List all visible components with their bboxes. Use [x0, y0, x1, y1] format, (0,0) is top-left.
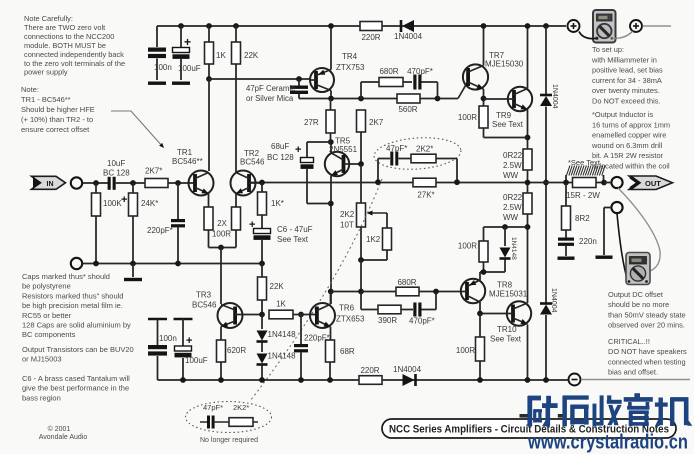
pointer line from note to TR1 — [111, 111, 163, 147]
svg-text:220pF*: 220pF* — [147, 226, 173, 235]
transistor TR6 ZTX653 — [310, 303, 335, 328]
capacitor 470pF upper — [413, 75, 416, 90]
svg-text:over twenty minutes.: over twenty minutes. — [592, 86, 660, 95]
svg-text:C6 - A brass cased Tantalum wi: C6 - A brass cased Tantalum will — [22, 374, 130, 383]
svg-text:*Output Inductor is: *Output Inductor is — [592, 110, 654, 119]
svg-text:+: + — [186, 335, 192, 347]
svg-text:BC546**: BC546** — [172, 157, 203, 166]
svg-text:TR8: TR8 — [497, 281, 513, 290]
capacitor 100uF top-left — [178, 23, 184, 29]
wire TR7 emitter — [483, 89, 485, 106]
svg-text:connections to the NCC200: connections to the NCC200 — [24, 32, 114, 41]
svg-text:22K: 22K — [270, 282, 285, 291]
caps 100n 100uF lower — [148, 318, 167, 321]
resistor 100R bias — [479, 106, 488, 128]
terminal ground left — [71, 258, 82, 269]
svg-text:Note:: Note: — [21, 85, 39, 94]
svg-text:Caps marked thus* should: Caps marked thus* should — [22, 272, 110, 281]
svg-text:1N4004: 1N4004 — [551, 84, 558, 109]
resistor 220R top — [360, 22, 382, 31]
svg-text:WW: WW — [503, 213, 519, 222]
svg-text:1K: 1K — [216, 51, 226, 60]
svg-text:bass region: bass region — [22, 393, 61, 402]
svg-text:24K*: 24K* — [141, 199, 158, 208]
svg-text:*See Text: *See Text — [568, 158, 601, 167]
svg-text:Resistors marked thus" should: Resistors marked thus" should — [22, 291, 123, 300]
resistor 2K2 deleted — [229, 418, 253, 427]
resistor 2K7 — [357, 110, 366, 132]
resistor 0R22 upper — [523, 149, 532, 170]
svg-text:or MJ15003: or MJ15003 — [22, 355, 62, 364]
multimeter top — [593, 10, 616, 43]
svg-text:1N4148: 1N4148 — [268, 352, 297, 361]
svg-text:8R2: 8R2 — [575, 214, 590, 223]
ground stub — [132, 264, 134, 278]
OUT arrow — [629, 176, 673, 190]
gray line from right terminal — [643, 25, 672, 27]
svg-text:220R: 220R — [360, 366, 379, 375]
capacitor 220pF* input — [175, 180, 181, 186]
svg-text:15R - 2W: 15R - 2W — [566, 191, 600, 200]
resistor 100R base drive — [479, 314, 481, 338]
wire top positive rail — [157, 25, 566, 27]
svg-text:current for 34 - 38mA: current for 34 - 38mA — [592, 76, 662, 85]
wire input — [83, 182, 108, 184]
svg-text:100n: 100n — [159, 334, 177, 343]
svg-text:+: + — [121, 194, 127, 206]
svg-text:MJE15031: MJE15031 — [489, 290, 528, 299]
terminal input — [71, 177, 82, 188]
wire TR1 collector to TR4 base — [206, 76, 212, 82]
dotted ellipse 47pF 2K2 upper — [373, 135, 462, 172]
svg-text:100n: 100n — [154, 63, 172, 72]
svg-text:than 50mV steady state: than 50mV steady state — [608, 310, 686, 319]
svg-text:2K2*: 2K2* — [416, 145, 433, 154]
svg-text:OUT: OUT — [645, 179, 661, 188]
resistor 100K — [93, 180, 99, 186]
svg-text:100R: 100R — [458, 113, 477, 122]
svg-text:TR1 - BC546**: TR1 - BC546** — [21, 95, 71, 104]
TR4 body — [310, 68, 334, 92]
svg-text:power supply: power supply — [24, 68, 68, 77]
svg-text:220R: 220R — [361, 33, 380, 42]
svg-text:2.5W: 2.5W — [503, 203, 522, 212]
dotted ellipse no longer required — [186, 402, 272, 433]
svg-text:module. BOTH MUST be: module. BOTH MUST be — [24, 41, 106, 50]
svg-text:22K: 22K — [244, 51, 259, 60]
svg-text:10T: 10T — [340, 221, 354, 230]
trimmer wiper arrow — [370, 212, 387, 214]
svg-text:CRITICAL..!!: CRITICAL..!! — [608, 337, 650, 346]
svg-text:620R: 620R — [227, 346, 246, 355]
terminal plus top right — [630, 20, 642, 32]
capacitor 220n — [558, 238, 574, 241]
svg-text:68R: 68R — [340, 347, 355, 356]
trimmer 2K2 10T — [358, 161, 364, 167]
svg-text:100uF: 100uF — [178, 64, 201, 73]
resistor 15R 2W — [573, 178, 597, 188]
resistor 27K* — [413, 178, 436, 187]
svg-text:(+ 10%) than TR2 - to: (+ 10%) than TR2 - to — [21, 115, 93, 124]
resistor 27R — [330, 99, 332, 111]
svg-text:100uF: 100uF — [185, 356, 208, 365]
capacitor 47pF deleted — [200, 421, 207, 423]
svg-text:2X: 2X — [217, 219, 227, 228]
resistor 22K lower — [261, 264, 263, 278]
junction output node — [525, 180, 531, 186]
svg-text:+: + — [184, 35, 191, 49]
svg-text:2K2*: 2K2* — [233, 403, 249, 412]
svg-text:1N4148: 1N4148 — [268, 330, 297, 339]
svg-text:100R: 100R — [212, 230, 231, 239]
IN arrow — [32, 176, 66, 189]
svg-text:www.crystalradio.cn: www.crystalradio.cn — [527, 432, 688, 454]
resistor 560R — [397, 94, 420, 103]
svg-text:47pF*: 47pF* — [386, 144, 407, 153]
svg-text:See Text: See Text — [490, 335, 522, 344]
watermark crystalradio — [520, 393, 693, 426]
svg-text:16 turns of approx 1mm: 16 turns of approx 1mm — [592, 120, 670, 129]
meter lead gray from OUT — [618, 188, 660, 271]
svg-text:1N4148: 1N4148 — [510, 237, 517, 260]
svg-text:See Text: See Text — [492, 120, 524, 129]
capacitor C6 47uF — [261, 215, 263, 228]
resistor 22K — [233, 23, 239, 29]
resistor 1K horizontal — [269, 310, 293, 319]
TR5 collector wire — [330, 142, 332, 153]
svg-text:to the zero volt terminals of: to the zero volt terminals of the — [24, 59, 125, 68]
svg-text:be high precision metal film i: be high precision metal film ie. — [22, 301, 123, 310]
wire ground bus y263 — [83, 263, 262, 265]
resistor 1K — [206, 23, 212, 29]
svg-text:connected when testing: connected when testing — [608, 357, 686, 366]
tail wires — [208, 230, 210, 248]
svg-text:470pF*: 470pF* — [409, 317, 435, 326]
svg-text:560R: 560R — [398, 105, 417, 114]
svg-text:680R: 680R — [397, 278, 416, 287]
diode rail 1N4004 vertical upper — [543, 23, 549, 29]
svg-text:100R: 100R — [456, 346, 475, 355]
capacitor 10uF input — [108, 177, 111, 190]
diode 1N4004 vertical lower — [540, 305, 552, 315]
dotted pointer line — [250, 179, 382, 401]
TR5 emitter wire down — [330, 176, 332, 304]
svg-text:47pF Ceramic: 47pF Ceramic — [246, 84, 295, 93]
svg-text:47pF*: 47pF* — [203, 403, 223, 412]
svg-text:100R: 100R — [458, 242, 477, 251]
branch 47pF* 2K2* — [377, 159, 379, 182]
svg-text:1K2: 1K2 — [366, 235, 381, 244]
svg-text:TR1: TR1 — [177, 148, 193, 157]
resistor 1K2 — [386, 213, 388, 228]
svg-text:2K7*: 2K7* — [145, 167, 162, 176]
resistor 8R2 — [565, 183, 567, 207]
svg-text:bias and offset.: bias and offset. — [608, 368, 658, 377]
resistor 0R22 lower — [523, 193, 532, 214]
TR2 body — [231, 171, 256, 196]
svg-text:Output Transistors can be BUV2: Output Transistors can be BUV20 — [22, 345, 134, 354]
svg-text:To set up:: To set up: — [592, 45, 624, 54]
svg-text:BC 128: BC 128 — [103, 169, 130, 178]
svg-text:2.5W: 2.5W — [503, 161, 522, 170]
svg-text:Output DC offset: Output DC offset — [608, 290, 663, 299]
svg-text:BC 128: BC 128 — [267, 153, 294, 162]
gray line from minus terminal — [581, 379, 690, 381]
svg-text:Note Carefully:: Note Carefully: — [24, 14, 73, 23]
svg-text:1N4004: 1N4004 — [550, 288, 557, 313]
terminal sense — [611, 202, 622, 213]
resistor 220R bottom — [359, 376, 382, 385]
TR9 body — [508, 87, 532, 111]
wire to TR7 base — [458, 83, 467, 99]
svg-text:2N5551: 2N5551 — [329, 145, 358, 154]
svg-text:TR9: TR9 — [496, 111, 512, 120]
svg-text:1K: 1K — [276, 300, 286, 309]
upper 100R and 1N4148 pair — [484, 226, 528, 228]
TR10 body — [507, 301, 531, 325]
svg-text:680R: 680R — [379, 67, 398, 76]
svg-text:2K2: 2K2 — [340, 210, 355, 219]
svg-text:with Milliammeter in: with Milliammeter in — [591, 55, 657, 64]
wire 22K to TR2 collector — [235, 64, 237, 172]
svg-text:+: + — [295, 144, 301, 156]
capacitor 47pF ceramic — [296, 76, 302, 82]
wire TR6 collector to branch — [331, 291, 362, 293]
branch 680R 470pF — [360, 82, 362, 99]
svg-text:positive lead, set bias: positive lead, set bias — [592, 66, 663, 75]
terminal OUT — [611, 177, 622, 188]
transistor TR8 MJE15031 — [461, 279, 485, 303]
meter lead left — [579, 32, 596, 39]
svg-text:connected independently back: connected independently back — [24, 50, 124, 59]
transistor TR5 2N5551 — [325, 152, 349, 176]
resistor 680R lower — [361, 291, 396, 293]
svg-text:+: + — [249, 219, 255, 231]
terminal plus top — [568, 20, 580, 32]
wire vas rail y98 — [299, 98, 458, 100]
svg-text:There are TWO zero volt: There are TWO zero volt — [24, 23, 105, 32]
meter lead right — [614, 31, 633, 38]
emitter resistors 2X 100R — [208, 194, 210, 208]
svg-text:WW: WW — [503, 171, 519, 180]
svg-text:220n: 220n — [579, 237, 597, 246]
svg-text:TR6: TR6 — [339, 304, 355, 313]
svg-text:0R22: 0R22 — [503, 193, 523, 202]
feedback wire y182 — [251, 182, 605, 184]
ground under 100uF — [172, 82, 190, 85]
capacitor 68uF BC128 — [307, 141, 331, 143]
transistor TR3 BC546 — [218, 303, 243, 328]
svg-text:27R: 27R — [304, 118, 319, 127]
resistor 620R — [220, 327, 222, 340]
svg-text:DO NOT have speakers: DO NOT have speakers — [608, 347, 687, 356]
ground under 100n — [148, 82, 166, 85]
svg-text:ensure correct offset: ensure correct offset — [21, 125, 90, 134]
svg-text:470pF*: 470pF* — [407, 67, 433, 76]
svg-text:TR4: TR4 — [342, 52, 358, 61]
wire bottom negative rail — [158, 379, 569, 381]
svg-text:enamelled copper wire: enamelled copper wire — [592, 131, 666, 140]
svg-text:TR10: TR10 — [497, 325, 517, 334]
svg-text:BC components: BC components — [22, 330, 76, 339]
svg-text:© 2001: © 2001 — [48, 425, 71, 433]
svg-text:Should be higher HFE: Should be higher HFE — [21, 105, 95, 114]
svg-text:bit. A 15R 2W resistor: bit. A 15R 2W resistor — [592, 151, 664, 160]
svg-text:1K*: 1K* — [271, 199, 284, 208]
svg-text:10uF: 10uF — [107, 159, 125, 168]
svg-text:wound on 6.3mm drill: wound on 6.3mm drill — [591, 141, 663, 150]
capacitor 220pF* lower — [300, 315, 302, 345]
TR1 body — [189, 171, 214, 196]
svg-text:BC546: BC546 — [192, 301, 217, 310]
diodes 2x 1N4148 — [261, 315, 263, 330]
terminal minus — [569, 374, 581, 386]
title banner — [382, 419, 676, 438]
transistor TR7 MJE15030 — [463, 64, 488, 89]
svg-text:No longer required: No longer required — [200, 437, 258, 444]
svg-text:390R: 390R — [378, 316, 397, 325]
branch 390R 470pF lower — [360, 292, 362, 310]
svg-text:1N4004: 1N4004 — [394, 32, 423, 41]
svg-text:observed over 20 mins.: observed over 20 mins. — [608, 321, 685, 330]
resistor 1K* — [261, 183, 263, 193]
svg-text:or Silver Mica: or Silver Mica — [246, 94, 294, 103]
svg-text:1N4004: 1N4004 — [393, 365, 422, 374]
inductor coil — [565, 175, 567, 183]
multimeter bottom — [626, 253, 650, 285]
svg-text:should be no more: should be no more — [608, 300, 669, 309]
wire 100R to TR9 emitter — [483, 128, 485, 138]
svg-text:100K: 100K — [103, 199, 122, 208]
svg-text:Do NOT exceed this.: Do NOT exceed this. — [592, 97, 660, 106]
resistor 2K7* input — [145, 179, 168, 188]
svg-text:ZTX653: ZTX653 — [336, 315, 365, 324]
svg-text:See Text: See Text — [277, 235, 309, 244]
resistor 68R — [330, 327, 332, 340]
svg-text:2K7: 2K7 — [369, 118, 384, 127]
svg-text:be polystyrene: be polystyrene — [22, 282, 71, 291]
svg-text:IN: IN — [47, 181, 54, 188]
diode 1N4004 top — [402, 20, 414, 32]
svg-text:MJE15030: MJE15030 — [485, 60, 524, 69]
svg-text:27K*: 27K* — [417, 191, 434, 200]
meter lead black to meter — [617, 214, 628, 281]
diode 1N4004 bottom — [403, 374, 415, 386]
svg-text:TR3: TR3 — [196, 291, 212, 300]
svg-text:ZTX753: ZTX753 — [336, 63, 365, 72]
svg-text:C6 - 47uF: C6 - 47uF — [277, 225, 313, 234]
svg-text:RC55 or better: RC55 or better — [22, 311, 72, 320]
svg-text:BC546: BC546 — [240, 158, 265, 167]
capacitor 100n top-left — [156, 26, 158, 47]
resistor 24K* — [130, 180, 136, 186]
svg-text:Avondale Audio: Avondale Audio — [39, 434, 88, 441]
ground under sense — [596, 256, 613, 259]
svg-text:68uF: 68uF — [271, 142, 289, 151]
svg-text:0R22: 0R22 — [503, 151, 523, 160]
svg-text:give the best performance in t: give the best performance in the — [22, 384, 129, 393]
svg-text:128 Caps are solid aluminium b: 128 Caps are solid aluminium by — [22, 321, 131, 330]
